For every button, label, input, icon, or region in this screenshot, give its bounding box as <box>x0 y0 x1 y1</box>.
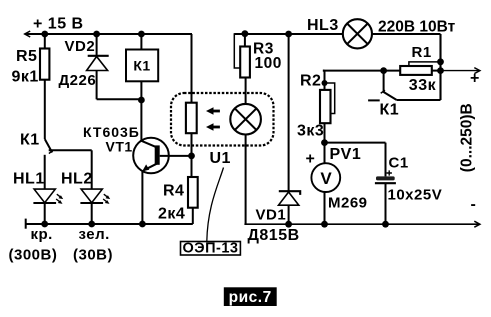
svg-text:-: - <box>471 196 477 213</box>
node junction dot VD2/coil/collector <box>138 97 145 104</box>
LED HL2 <box>80 189 110 224</box>
wire U1 leader line <box>207 168 224 242</box>
svg-text:кр.: кр. <box>31 226 53 243</box>
svg-text:VD1: VD1 <box>256 206 287 223</box>
svg-text:HL1: HL1 <box>13 171 45 188</box>
lamp U1.L in optocoupler <box>230 104 261 135</box>
node dot R1 right/output <box>437 67 444 74</box>
lamp HL3 <box>343 19 372 48</box>
svg-text:рис.7: рис.7 <box>229 289 272 306</box>
svg-text:Д815В: Д815В <box>248 227 300 244</box>
node dot PV1/rail <box>321 221 328 228</box>
switch K1 right <box>368 71 440 101</box>
wire collector <box>140 100 142 141</box>
resistor R3 with tap <box>234 34 250 104</box>
svg-text:2к4: 2к4 <box>158 206 185 223</box>
svg-text:зел.: зел. <box>79 226 110 243</box>
wire VD2 to K1 coil <box>97 98 142 100</box>
wire HL2 drop <box>91 150 93 189</box>
node dot VD1/rail <box>285 31 292 38</box>
wire HL3 to corner and down <box>372 34 441 100</box>
svg-text:(300В): (300В) <box>9 247 58 264</box>
svg-text:К1: К1 <box>20 131 40 148</box>
diode VD2 <box>87 34 109 99</box>
svg-text:R2: R2 <box>300 73 321 90</box>
svg-text:R1: R1 <box>412 44 432 61</box>
node junction dot K1coil/rail <box>138 31 145 38</box>
svg-text:(0...250)В: (0...250)В <box>459 103 476 172</box>
capacitor C1 <box>375 143 396 225</box>
wire bottom rail right with arrow <box>244 221 480 227</box>
wire emitter down <box>141 171 143 224</box>
node dot C1/rail <box>382 221 389 228</box>
node dot HL1/rail <box>41 221 48 228</box>
svg-text:R4: R4 <box>163 183 184 200</box>
svg-text:HL3: HL3 <box>307 17 339 34</box>
voltmeter PV1 <box>311 143 340 225</box>
switch K1 left <box>45 139 53 189</box>
svg-text:PV1: PV1 <box>330 146 362 163</box>
svg-text:U1: U1 <box>210 150 231 167</box>
label рис.7 <box>224 287 277 306</box>
node dot R3/rail <box>242 30 249 37</box>
wire output plus with arrow <box>441 68 480 74</box>
node dot R2/PV1/C1 <box>321 139 328 146</box>
wire R2 junction to C1 <box>325 142 386 144</box>
label box ОЭП-13 <box>181 241 241 257</box>
LED HL1 <box>33 189 63 224</box>
wire R2/R1 top net <box>323 70 400 72</box>
wire switch to HL2 <box>49 149 92 151</box>
node dot switch top <box>380 67 387 74</box>
svg-text:+ 15 В: + 15 В <box>33 16 84 33</box>
svg-text:+: + <box>470 70 480 87</box>
node dot VD1/rail <box>285 221 292 228</box>
svg-text:VT1: VT1 <box>106 138 133 154</box>
svg-text:ОЭП-13: ОЭП-13 <box>183 241 239 257</box>
svg-text:R5: R5 <box>16 48 37 65</box>
zener diode VD1 <box>279 34 301 224</box>
svg-text:33к: 33к <box>409 77 437 94</box>
transistor VT1 <box>133 138 191 174</box>
resistor R5 <box>40 34 49 139</box>
svg-text:К1: К1 <box>133 58 150 74</box>
svg-text:HL2: HL2 <box>61 171 93 188</box>
icon light arrows in optocoupler <box>206 107 220 131</box>
svg-text:К1: К1 <box>380 102 400 119</box>
optocoupler U1 dashed box <box>171 93 274 146</box>
resistor R1 with tap <box>400 62 440 75</box>
svg-text:M269: M269 <box>328 195 368 212</box>
wire bottom rail left <box>26 219 193 229</box>
node junction dot VD2/rail <box>93 31 100 38</box>
resistor R2 with tap <box>320 71 335 143</box>
svg-text:10x25V: 10x25V <box>388 187 443 204</box>
node dot R2 tap <box>322 80 328 86</box>
wire lamp to bottom rail <box>245 135 247 225</box>
node dot HL2/rail <box>88 221 95 228</box>
svg-text:+: + <box>306 151 316 168</box>
svg-text:V: V <box>320 169 332 188</box>
svg-text:3к3: 3к3 <box>297 123 324 140</box>
svg-text:C1: C1 <box>389 155 409 172</box>
svg-text:VD2: VD2 <box>65 38 96 55</box>
node junction dot base/divider <box>188 153 195 160</box>
svg-text:Д226: Д226 <box>59 72 97 89</box>
node junction dot R5/rail <box>41 31 48 38</box>
wire top rail right <box>234 33 343 35</box>
svg-text:100: 100 <box>255 55 282 72</box>
resistor R4 <box>188 156 198 224</box>
svg-text:(30В): (30В) <box>73 247 113 264</box>
node dot tap/vertical <box>437 58 444 65</box>
photoresistor U1.R <box>186 34 197 156</box>
wire +15V rail left with arrow <box>25 31 192 37</box>
svg-text:9к1: 9к1 <box>12 68 39 85</box>
node dot emitter/rail <box>139 221 146 228</box>
relay coil K1 <box>126 34 158 100</box>
